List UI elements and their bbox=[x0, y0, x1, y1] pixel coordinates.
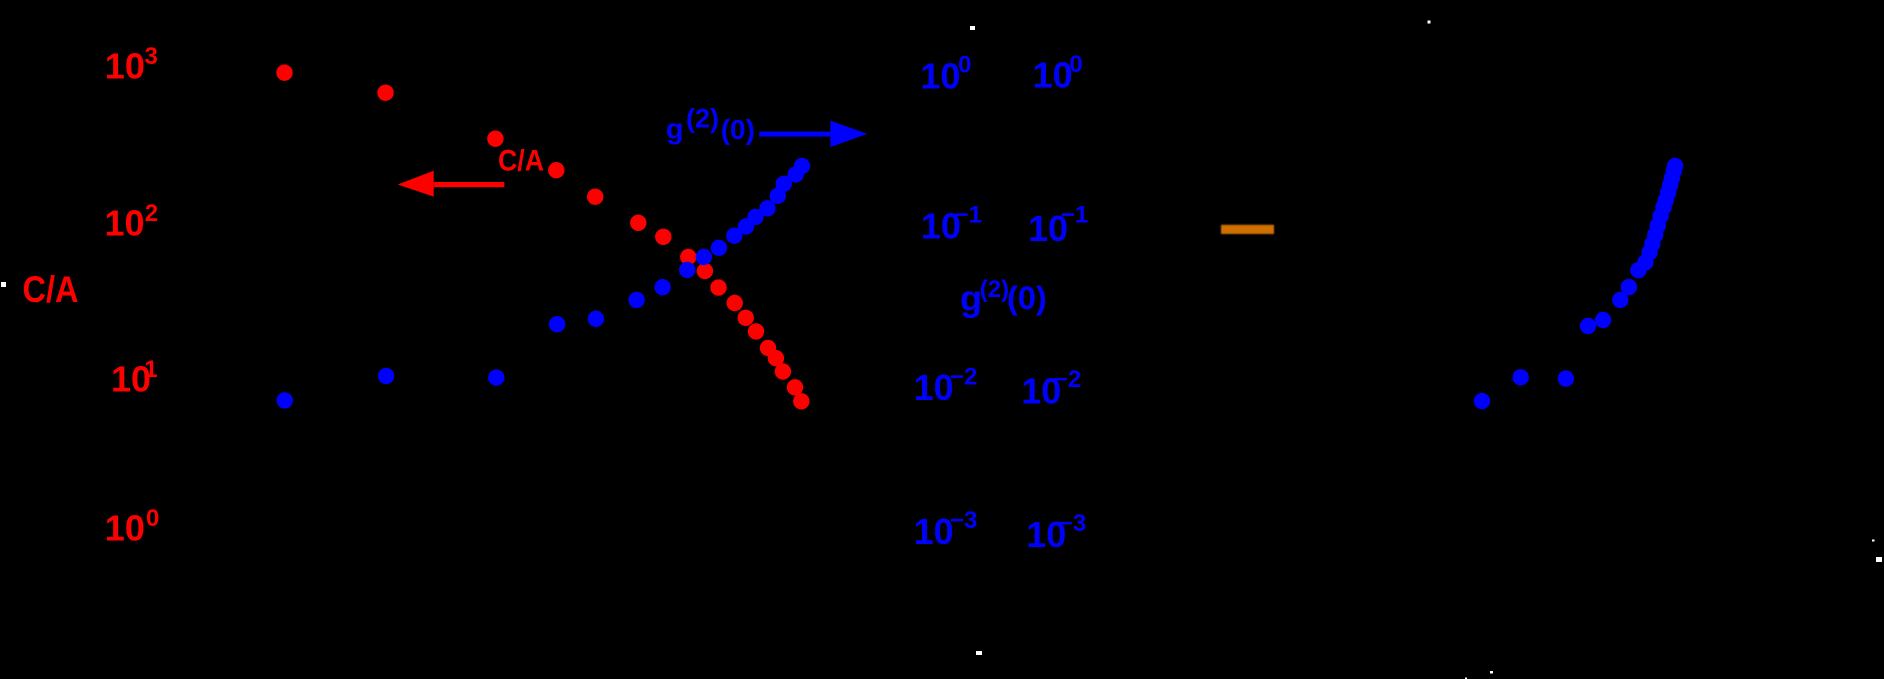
svg-text:C/A: C/A bbox=[498, 145, 544, 178]
svg-text:−1: −1 bbox=[955, 201, 982, 228]
svg-text:0: 0 bbox=[146, 505, 159, 532]
svg-text:−3: −3 bbox=[1059, 510, 1086, 537]
svg-text:10: 10 bbox=[1033, 55, 1073, 96]
svg-text:10: 10 bbox=[105, 508, 145, 549]
svg-text:2: 2 bbox=[145, 200, 158, 227]
svg-text:g: g bbox=[666, 114, 684, 146]
svg-text:10: 10 bbox=[920, 56, 960, 97]
svg-text:(0): (0) bbox=[721, 114, 755, 145]
svg-text:10: 10 bbox=[914, 511, 954, 552]
svg-text:−3: −3 bbox=[950, 507, 977, 534]
svg-text:10: 10 bbox=[105, 46, 145, 87]
svg-text:g: g bbox=[960, 278, 982, 319]
svg-text:0: 0 bbox=[958, 52, 971, 79]
svg-text:10: 10 bbox=[914, 367, 954, 408]
svg-text:−2: −2 bbox=[950, 364, 977, 391]
svg-text:10: 10 bbox=[105, 203, 145, 244]
svg-text:3: 3 bbox=[145, 43, 158, 70]
svg-text:(2): (2) bbox=[980, 276, 1009, 303]
svg-text:−2: −2 bbox=[1054, 366, 1081, 393]
svg-text:C/A: C/A bbox=[23, 269, 79, 310]
svg-text:1: 1 bbox=[144, 356, 157, 383]
svg-text:(0): (0) bbox=[1007, 280, 1047, 316]
svg-text:−1: −1 bbox=[1061, 202, 1088, 229]
svg-text:(2): (2) bbox=[686, 103, 719, 133]
svg-text:0: 0 bbox=[1069, 51, 1082, 78]
